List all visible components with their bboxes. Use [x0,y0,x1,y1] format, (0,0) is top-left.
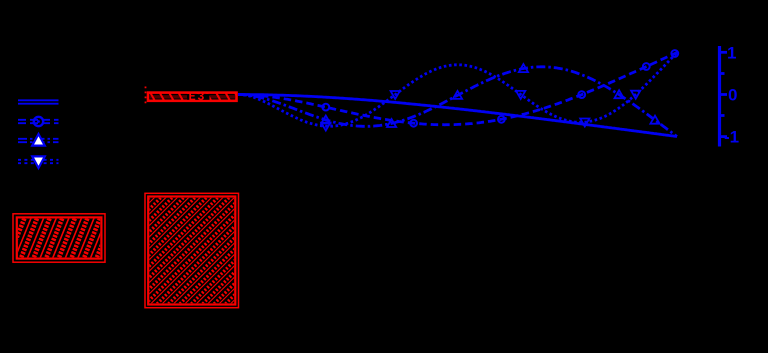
legend line mode 4 (dotted + triangle down) [18,156,59,168]
legend line mode 2 (dashed + circle) [18,117,59,126]
red hatched rect 1 border [13,214,105,262]
svg-text:-1: -1 [724,128,739,147]
curve mode 4 dotted [238,53,677,131]
svg-text:0: 0 [728,86,737,105]
right axis ticks [719,52,727,136]
red hatched rect 1 hatch [6,212,134,264]
legend line mode 3 (dash-dot + triangle up) [18,134,59,146]
curve mode 3 dash-dot [238,64,677,136]
red hatched rect 2 hatch [35,192,365,312]
right axis line [718,46,721,147]
legend line mode 1 (solid) [18,100,59,103]
right axis labels [724,43,739,146]
svg-text:E3: E3 [189,90,206,104]
clamp bar hatch [150,93,239,101]
curve mode 1 solid [238,95,677,137]
red hatched rect 2 border [145,193,239,307]
clamp wall dotted line [145,87,147,107]
clamp bar E3 mark [187,94,210,100]
curve mode 2 dashed [238,50,678,127]
svg-text:1: 1 [727,43,736,62]
clamp bar border [148,93,237,101]
